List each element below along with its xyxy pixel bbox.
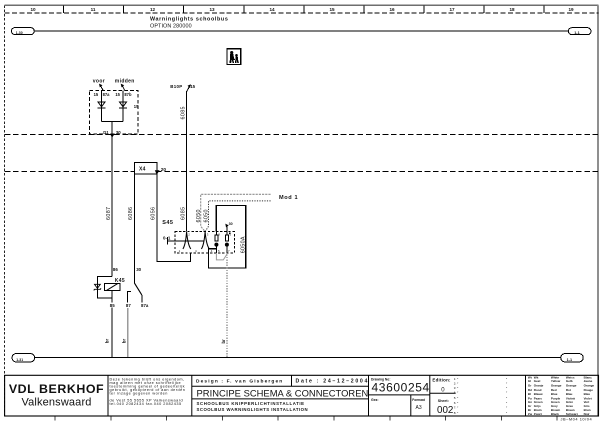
- switch contact 2: [201, 232, 209, 249]
- svg-text:17: 17: [449, 7, 455, 12]
- dashed harness rail 1: [5, 133, 598, 135]
- svg-text:15: 15: [190, 84, 195, 89]
- zener diode: [94, 284, 101, 290]
- svg-text:1-1: 1-1: [567, 358, 573, 362]
- wire 6087: [111, 134, 113, 276]
- svg-text:14: 14: [269, 7, 275, 12]
- node 30 pill top-left: [11, 28, 34, 35]
- wire 6086: [134, 174, 136, 283]
- svg-text:11: 11: [91, 7, 96, 12]
- svg-text:6086: 6086: [128, 207, 134, 220]
- switch S45 dashed box: [175, 232, 234, 253]
- svg-text:Zw: Zw: [528, 412, 533, 416]
- connector X4: [135, 163, 157, 175]
- ruler numbers: [30, 7, 574, 12]
- diode D1b: [119, 90, 127, 121]
- svg-text:SCHOOLBUS KNIPPERLICHTINSTALLA: SCHOOLBUS KNIPPERLICHTINSTALLATIE: [197, 401, 305, 406]
- svg-text:16: 16: [389, 7, 395, 12]
- svg-text:87b: 87b: [124, 92, 132, 97]
- svg-text:15: 15: [94, 92, 99, 97]
- lamp L1: [214, 243, 218, 247]
- svg-text:6056: 6056: [151, 207, 157, 220]
- label br on 85 wire: [104, 335, 109, 344]
- switch pin numbers top: [188, 232, 231, 236]
- svg-text:VDL BERKHOF: VDL BERKHOF: [9, 382, 104, 396]
- diode D1a: [98, 90, 106, 121]
- svg-text:0–1: 0–1: [163, 235, 171, 240]
- border frame bottom: [5, 415, 599, 417]
- svg-text:13: 13: [209, 7, 215, 12]
- svg-text:10: 10: [30, 7, 36, 12]
- svg-text:Oranje: Oranje: [534, 383, 544, 387]
- svg-text:18: 18: [509, 7, 515, 12]
- zener branch wires: [97, 277, 112, 298]
- svg-text:Edition:: Edition:: [432, 378, 451, 383]
- arrow to 30 lamp supply: [225, 224, 228, 232]
- arrow to 15 (87b): [121, 84, 125, 91]
- wire 87 gray: [127, 308, 129, 358]
- svg-text:43600254: 43600254: [372, 380, 430, 394]
- svg-text:1-1: 1-1: [574, 31, 580, 35]
- wire lamp commons gray: [216, 253, 227, 260]
- svg-text:6050A: 6050A: [241, 236, 247, 253]
- node 1-1 pill bottom-right: [561, 354, 584, 362]
- svg-text:JB–M04 10/04: JB–M04 10/04: [561, 416, 593, 421]
- svg-text:Black: Black: [551, 412, 559, 416]
- svg-text:85: 85: [110, 303, 115, 308]
- wire 6085: [186, 92, 188, 232]
- svg-text:6085: 6085: [181, 106, 187, 119]
- svg-text:15: 15: [134, 104, 139, 109]
- coil wire to 85: [111, 290, 113, 357]
- switch contact 1: [183, 232, 191, 249]
- arrow to 15 (87a): [99, 84, 103, 91]
- svg-text:6050: 6050: [196, 209, 202, 222]
- svg-text:20: 20: [161, 167, 167, 173]
- arrow to 15 B10P: [187, 84, 191, 91]
- title block: [5, 375, 599, 421]
- svg-text:86: 86: [113, 267, 118, 272]
- svg-text:br: br: [221, 339, 226, 344]
- wire 6050 gray A: [201, 194, 271, 231]
- svg-text:Orange: Orange: [551, 383, 562, 387]
- svg-text:OPTION 280000: OPTION 280000: [150, 24, 192, 30]
- svg-text:87a: 87a: [103, 92, 111, 97]
- svg-text:30: 30: [136, 267, 141, 272]
- svg-text:PRINCIPE SCHEMA & CONNECTOREN: PRINCIPE SCHEMA & CONNECTOREN: [197, 387, 369, 398]
- schoolchildren sign: [227, 49, 241, 65]
- svg-text:15: 15: [329, 7, 335, 12]
- wire net 30 top rail: [34, 30, 568, 32]
- wire D1 output: [111, 121, 113, 134]
- relay coil K45: [105, 283, 121, 290]
- svg-text:Noir: Noir: [584, 412, 591, 416]
- svg-text:30: 30: [229, 222, 233, 226]
- svg-text:Valkenswaard: Valkenswaard: [21, 397, 91, 409]
- svg-text:6085: 6085: [181, 207, 187, 220]
- svg-text:br: br: [105, 339, 110, 344]
- svg-text:Gez:: Gez:: [371, 398, 379, 402]
- wire 6056: [157, 174, 191, 261]
- svg-text:voor: voor: [93, 79, 105, 85]
- module 6050A solid outline: [209, 205, 246, 268]
- svg-text:br: br: [122, 339, 127, 344]
- svg-text:Design : F. van Gisbergen: Design : F. van Gisbergen: [196, 379, 283, 385]
- svg-text:Bl: Bl: [528, 392, 531, 396]
- contact arm 30-87a: [135, 283, 142, 295]
- svg-text:S45: S45: [162, 220, 173, 226]
- svg-text:Zwart: Zwart: [534, 412, 542, 416]
- terminal 87: [128, 291, 132, 302]
- svg-text:Bleu: Bleu: [584, 392, 591, 396]
- wire diode join: [102, 120, 124, 122]
- lamp L2: [225, 243, 229, 247]
- ruler ticks: [64, 5, 544, 13]
- svg-text:SCOOLBUS WARNINGLIGHTS INSTALL: SCOOLBUS WARNINGLIGHTS INSTALLATION: [197, 407, 309, 412]
- svg-text:Blue: Blue: [551, 392, 558, 396]
- svg-text:Date : 24–12–2004: Date : 24–12–2004: [296, 379, 370, 385]
- svg-text:1-30: 1-30: [16, 31, 23, 35]
- diode pack D1 dashed box: [90, 90, 139, 134]
- svg-text:Blau: Blau: [566, 392, 573, 396]
- svg-text:15: 15: [115, 92, 120, 97]
- dashed harness rail 2: [5, 170, 598, 172]
- switch linkage: [168, 240, 204, 242]
- svg-text:19: 19: [568, 7, 574, 12]
- border frame top: [5, 4, 599, 6]
- svg-text:6087: 6087: [106, 207, 112, 220]
- svg-text:A3: A3: [416, 405, 422, 411]
- svg-text:Orange: Orange: [566, 383, 577, 387]
- lamp L2 resistor: [226, 232, 229, 241]
- wire net 31 bottom rail: [35, 357, 561, 359]
- junction arrow X4 pin 20: [155, 170, 160, 174]
- border frame right: [597, 5, 599, 416]
- svg-text:B10P: B10P: [170, 84, 182, 89]
- node 31 pill bottom-left: [12, 354, 35, 362]
- svg-text:Formaat: Formaat: [412, 398, 426, 402]
- wire 6050 gray B: [205, 201, 270, 232]
- terminal 87a: [141, 295, 143, 303]
- ruler band bottom edge: [5, 12, 599, 14]
- wire br to ground dotted: [226, 254, 228, 357]
- border frame left: [4, 5, 6, 416]
- svg-text:Orange: Orange: [584, 383, 595, 387]
- bottom edge tick marks: [55, 417, 557, 421]
- svg-text:Sheet:: Sheet:: [438, 399, 449, 403]
- svg-text:87a: 87a: [141, 303, 149, 308]
- svg-text:tel.040 2082434 fax.040 208243: tel.040 2082434 fax.040 2082435: [110, 402, 182, 406]
- lamp L1 resistor: [215, 232, 218, 241]
- svg-text:6050: 6050: [203, 209, 209, 222]
- svg-text:ter inzage gegeven worden: ter inzage gegeven worden: [110, 392, 168, 396]
- svg-text:midden: midden: [115, 79, 135, 85]
- node 1-1 pill top-right: [568, 28, 591, 35]
- svg-text:1-31: 1-31: [16, 358, 23, 362]
- svg-text:002: 002: [437, 405, 453, 416]
- junction arrow on rail 30: [110, 134, 115, 138]
- switch pin numbers bottom: [179, 249, 230, 253]
- svg-text:87: 87: [126, 303, 131, 308]
- svg-text:12: 12: [150, 7, 156, 12]
- svg-text:Blauw: Blauw: [534, 392, 544, 396]
- svg-text:Warninglights schoolbus: Warninglights schoolbus: [150, 17, 228, 23]
- pin 85 label: [109, 303, 117, 308]
- svg-text:X4: X4: [139, 167, 146, 173]
- svg-text:Schwarz: Schwarz: [566, 412, 579, 416]
- svg-text:Mod 1: Mod 1: [279, 195, 298, 201]
